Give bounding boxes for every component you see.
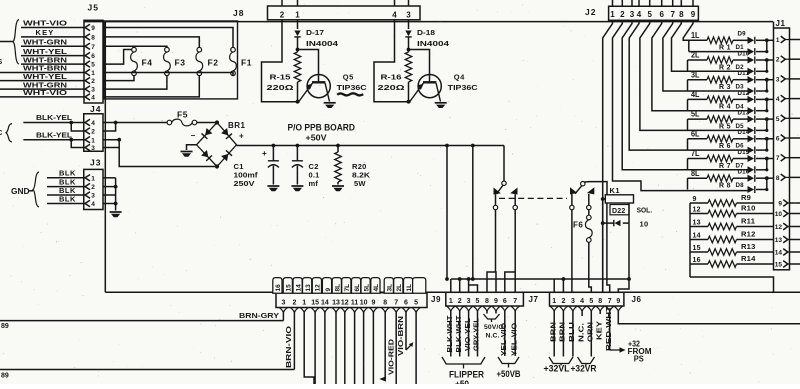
svg-text:YEL-VIO: YEL-VIO — [509, 323, 518, 356]
svg-text:13: 13 — [775, 237, 783, 244]
svg-text:9: 9 — [616, 298, 620, 305]
svg-text:D22: D22 — [612, 208, 625, 215]
svg-text:RED-WHT: RED-WHT — [604, 305, 613, 351]
svg-text:J9: J9 — [431, 295, 441, 304]
svg-text:J5: J5 — [88, 3, 99, 13]
svg-text:2: 2 — [620, 10, 625, 19]
svg-text:VIO-RED: VIO-RED — [386, 338, 395, 375]
svg-text:BLK: BLK — [59, 169, 76, 178]
svg-text:5: 5 — [476, 298, 480, 305]
svg-text:F2: F2 — [208, 58, 219, 68]
svg-text:5: 5 — [647, 10, 652, 19]
svg-text:4: 4 — [637, 10, 642, 19]
svg-text:8: 8 — [91, 35, 95, 42]
svg-text:4L: 4L — [691, 90, 700, 99]
svg-text:BRN: BRN — [548, 322, 557, 342]
svg-text:2: 2 — [561, 298, 565, 305]
svg-text:13: 13 — [332, 300, 340, 307]
svg-text:2: 2 — [91, 129, 95, 136]
svg-text:9: 9 — [693, 196, 697, 203]
svg-text:N.C.: N.C. — [576, 323, 585, 342]
svg-text:3: 3 — [281, 300, 285, 307]
svg-text:+50: +50 — [455, 379, 469, 384]
svg-text:16: 16 — [693, 257, 701, 264]
svg-text:7: 7 — [513, 298, 517, 305]
svg-text:D8: D8 — [736, 182, 745, 189]
svg-text:6L: 6L — [691, 129, 700, 138]
svg-text:9: 9 — [494, 298, 498, 305]
svg-text:1: 1 — [91, 175, 95, 182]
svg-text:+32VL: +32VL — [544, 363, 570, 373]
svg-text:16: 16 — [275, 284, 282, 292]
svg-text:8: 8 — [776, 175, 780, 182]
svg-text:5L: 5L — [691, 110, 700, 119]
svg-text:D15: D15 — [738, 149, 750, 156]
svg-text:4: 4 — [580, 298, 584, 305]
svg-text:3: 3 — [91, 87, 95, 94]
svg-text:N.C.: N.C. — [486, 333, 500, 340]
svg-text:K1: K1 — [610, 186, 621, 195]
svg-text:14: 14 — [321, 300, 329, 307]
svg-text:3: 3 — [91, 193, 95, 200]
svg-text:8: 8 — [485, 298, 489, 305]
svg-text:4: 4 — [392, 10, 397, 19]
svg-text:4: 4 — [776, 96, 780, 103]
svg-text:1: 1 — [91, 137, 95, 144]
svg-text:R 1: R 1 — [719, 45, 731, 52]
svg-text:D13: D13 — [738, 110, 750, 117]
svg-text:3L: 3L — [387, 284, 394, 292]
svg-text:+50V: +50V — [306, 133, 327, 143]
svg-text:D14: D14 — [738, 129, 750, 136]
svg-text:2L: 2L — [691, 51, 700, 60]
svg-text:FLIPPER: FLIPPER — [449, 369, 484, 379]
svg-text:mf: mf — [309, 179, 319, 188]
svg-text:8: 8 — [598, 298, 602, 305]
svg-text:D11: D11 — [738, 70, 750, 77]
svg-text:4: 4 — [91, 201, 95, 208]
svg-text:TIP36C: TIP36C — [448, 83, 479, 92]
svg-text:10: 10 — [775, 211, 783, 218]
svg-text:BLK-YEL: BLK-YEL — [36, 130, 72, 139]
svg-text:Q4: Q4 — [454, 73, 465, 82]
svg-text:D-17: D-17 — [306, 28, 324, 37]
svg-text:R 5: R 5 — [719, 123, 731, 130]
svg-text:2: 2 — [292, 300, 296, 307]
svg-text:2: 2 — [91, 78, 95, 85]
svg-text:13: 13 — [693, 219, 701, 226]
svg-text:1: 1 — [302, 300, 306, 307]
svg-text:220Ω: 220Ω — [378, 83, 405, 92]
svg-text:PS: PS — [634, 354, 645, 363]
svg-text:5L: 5L — [363, 284, 370, 292]
svg-text:10: 10 — [640, 220, 649, 229]
svg-text:BLK: BLK — [59, 194, 76, 203]
svg-text:J6: J6 — [632, 295, 642, 304]
svg-text:4: 4 — [91, 120, 95, 127]
svg-text:R13: R13 — [741, 242, 756, 251]
svg-text:3L: 3L — [691, 70, 700, 79]
svg-text:P/O PPB BOARD: P/O PPB BOARD — [288, 122, 356, 132]
svg-text:VIO-BRN: VIO-BRN — [396, 316, 405, 356]
svg-text:3: 3 — [91, 145, 95, 152]
svg-text:15: 15 — [311, 300, 319, 307]
svg-text:R 4: R 4 — [719, 104, 731, 111]
svg-text:14: 14 — [775, 250, 783, 257]
svg-text:9: 9 — [91, 25, 95, 32]
svg-text:2: 2 — [458, 298, 462, 305]
svg-text:2L: 2L — [396, 284, 403, 292]
svg-text:WHT-VIO: WHT-VIO — [23, 88, 67, 97]
svg-text:IN4004: IN4004 — [306, 39, 339, 48]
svg-text:R-16: R-16 — [381, 73, 402, 82]
svg-text:11: 11 — [351, 300, 359, 307]
svg-text:YEL-VIO: YEL-VIO — [499, 323, 508, 356]
svg-text:SOL.: SOL. — [637, 206, 653, 215]
svg-text:J1: J1 — [776, 19, 786, 28]
svg-text:12: 12 — [775, 224, 783, 231]
svg-text:8: 8 — [383, 300, 387, 307]
svg-text:R 6: R 6 — [719, 143, 731, 150]
svg-text:13: 13 — [305, 284, 312, 292]
svg-text:1L: 1L — [691, 31, 700, 40]
svg-text:10: 10 — [360, 300, 368, 307]
svg-text:TIP36C: TIP36C — [337, 83, 368, 92]
svg-text:+32VR: +32VR — [571, 363, 597, 373]
svg-text:S: S — [0, 59, 3, 66]
svg-text:2: 2 — [776, 57, 780, 64]
svg-text:F5: F5 — [177, 110, 188, 120]
svg-text:+: + — [239, 132, 244, 141]
svg-text:+: + — [262, 149, 267, 158]
svg-text:6: 6 — [776, 136, 780, 143]
svg-text:BLU: BLU — [567, 322, 576, 342]
svg-text:R 7: R 7 — [719, 163, 731, 170]
svg-text:BRN-VIO: BRN-VIO — [284, 326, 293, 368]
svg-text:5: 5 — [776, 116, 780, 123]
svg-text:250V: 250V — [234, 179, 255, 188]
svg-text:9: 9 — [325, 288, 332, 292]
svg-text:F4: F4 — [142, 58, 153, 68]
svg-text:7: 7 — [670, 10, 675, 19]
svg-text:KEY: KEY — [594, 321, 603, 340]
svg-text:BRN: BRN — [558, 322, 567, 342]
svg-text:1: 1 — [610, 10, 615, 19]
svg-text:1: 1 — [91, 70, 95, 77]
svg-text:3: 3 — [776, 76, 780, 83]
svg-text:7: 7 — [608, 298, 612, 305]
svg-text:12: 12 — [693, 206, 701, 213]
svg-text:5: 5 — [91, 62, 95, 69]
svg-text:8L: 8L — [691, 169, 700, 178]
svg-text:BLK-WHT: BLK-WHT — [454, 315, 463, 352]
svg-text:9: 9 — [371, 300, 375, 307]
svg-text:4: 4 — [91, 95, 95, 102]
svg-text:4L: 4L — [373, 284, 380, 292]
svg-text:BLK-WHT: BLK-WHT — [445, 315, 454, 352]
svg-text:D12: D12 — [738, 90, 750, 97]
svg-text:1: 1 — [295, 10, 300, 19]
svg-text:1: 1 — [552, 298, 556, 305]
svg-text:GND: GND — [11, 187, 30, 196]
svg-text:J8: J8 — [233, 8, 244, 18]
svg-text:R 3: R 3 — [719, 84, 731, 91]
svg-text:D16: D16 — [738, 169, 750, 176]
svg-text:IN4004: IN4004 — [417, 39, 450, 48]
svg-text:F3: F3 — [175, 58, 186, 68]
svg-text:R11: R11 — [741, 217, 756, 226]
svg-text:−: − — [191, 131, 196, 140]
svg-text:R 2: R 2 — [719, 64, 731, 71]
svg-text:8: 8 — [679, 10, 684, 19]
svg-text:GRY-YEL: GRY-YEL — [472, 318, 481, 351]
svg-text:7L: 7L — [344, 284, 351, 292]
svg-text:7: 7 — [394, 300, 398, 307]
svg-text:R14: R14 — [741, 254, 756, 263]
svg-text:3: 3 — [630, 10, 635, 19]
svg-text:12: 12 — [341, 300, 349, 307]
svg-text:9: 9 — [778, 201, 782, 208]
svg-text:Q5: Q5 — [343, 73, 354, 82]
svg-text:F1: F1 — [241, 58, 252, 68]
svg-text:D-18: D-18 — [417, 28, 435, 37]
svg-text:5W: 5W — [354, 179, 366, 188]
svg-text:12: 12 — [315, 284, 322, 292]
svg-text:3: 3 — [571, 298, 575, 305]
svg-text:15: 15 — [775, 262, 783, 269]
svg-text:6: 6 — [659, 10, 664, 19]
svg-text:6L: 6L — [354, 284, 361, 292]
svg-text:1: 1 — [776, 37, 780, 44]
svg-text:15: 15 — [286, 284, 293, 292]
svg-text:1L: 1L — [406, 284, 413, 292]
svg-text:14: 14 — [693, 232, 701, 239]
svg-text:3: 3 — [467, 298, 471, 305]
svg-text:6: 6 — [404, 300, 408, 307]
svg-text:BRN-GRY: BRN-GRY — [239, 311, 279, 320]
svg-text:15: 15 — [693, 245, 701, 252]
svg-text:+50VB: +50VB — [497, 369, 521, 379]
svg-text:2: 2 — [280, 10, 285, 19]
svg-text:2: 2 — [91, 184, 95, 191]
svg-text:WHT-VIO: WHT-VIO — [23, 19, 67, 28]
svg-text:D10: D10 — [738, 50, 750, 57]
svg-text:KEY: KEY — [35, 28, 54, 37]
svg-text:J2: J2 — [585, 7, 596, 17]
svg-text:8L: 8L — [335, 284, 342, 292]
svg-text:6: 6 — [503, 298, 507, 305]
svg-text:BLK-YEL: BLK-YEL — [36, 113, 72, 122]
svg-text:R9: R9 — [741, 193, 751, 202]
svg-text:89: 89 — [1, 373, 9, 380]
svg-text:1: 1 — [449, 298, 453, 305]
svg-text:89: 89 — [1, 323, 9, 330]
svg-text:14: 14 — [295, 284, 302, 292]
svg-text:6: 6 — [91, 53, 95, 60]
svg-text:R12: R12 — [741, 230, 756, 239]
svg-text:F6: F6 — [573, 221, 583, 230]
svg-text:J3: J3 — [90, 158, 101, 168]
svg-text:D9: D9 — [738, 31, 747, 38]
svg-text:R-15: R-15 — [270, 73, 291, 82]
svg-text:3: 3 — [406, 10, 411, 19]
svg-text:BR1: BR1 — [228, 121, 246, 130]
svg-text:7: 7 — [91, 44, 95, 51]
svg-text:VIO-YEL: VIO-YEL — [463, 318, 472, 351]
svg-text:7: 7 — [776, 155, 780, 162]
svg-text:5: 5 — [414, 300, 418, 307]
svg-text:J7: J7 — [529, 295, 539, 304]
svg-text:220Ω: 220Ω — [267, 83, 294, 92]
svg-text:ORN: ORN — [586, 322, 595, 342]
svg-text:R 8: R 8 — [719, 183, 731, 190]
svg-text:7L: 7L — [691, 149, 700, 158]
svg-text:WHT-GRN: WHT-GRN — [23, 38, 67, 47]
svg-text:J4: J4 — [90, 104, 101, 114]
svg-text:R10: R10 — [741, 204, 756, 213]
svg-text:5: 5 — [589, 298, 593, 305]
svg-text:9: 9 — [691, 10, 696, 19]
